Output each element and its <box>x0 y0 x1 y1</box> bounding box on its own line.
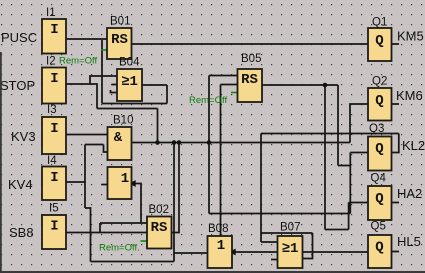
wire B07 wrap top <box>261 232 313 234</box>
wire into B07.in1 <box>261 241 278 243</box>
wire Q3 wrap top <box>261 133 399 135</box>
wire drop to B07.in1 <box>260 134 262 243</box>
green tick B05 Par <box>231 92 238 94</box>
svg-text:Rem=Off.: Rem=Off. <box>99 243 140 254</box>
junction bus-riser <box>155 140 160 145</box>
RS latch B01 <box>107 28 132 59</box>
wire bottom horizontal <box>91 261 175 263</box>
wire bus up to Q2 <box>350 104 368 143</box>
OR gate B04 <box>117 69 142 101</box>
svg-text:I1: I1 <box>46 7 56 19</box>
wire I4 output <box>66 181 85 183</box>
svg-text:Q: Q <box>375 191 383 207</box>
wire left chain top <box>85 144 104 146</box>
junction bus-B05 column <box>207 140 212 145</box>
wire drop to I5 line <box>99 223 101 233</box>
RS latch B02 <box>147 217 172 249</box>
OR gate B07 <box>278 236 303 268</box>
junction bus-B02 riser <box>177 140 182 145</box>
svg-text:KV4: KV4 <box>8 177 33 192</box>
wire left chain vertical <box>84 145 86 209</box>
wire drop to Q4 path <box>324 85 326 230</box>
svg-text:Q: Q <box>375 141 383 157</box>
svg-text:Q5: Q5 <box>371 221 386 233</box>
NOT gate B08 <box>208 236 233 268</box>
svg-text:1: 1 <box>121 171 129 187</box>
svg-text:B01: B01 <box>110 16 130 28</box>
svg-text:HL5: HL5 <box>397 234 421 249</box>
RS latch B05 <box>238 69 263 102</box>
wire step down to B10.in2 <box>104 145 108 153</box>
wire step up to B04.in1 <box>90 76 117 84</box>
svg-text:Rem=Off: Rem=Off <box>189 95 227 106</box>
wire B07 output to Q5 <box>303 251 369 253</box>
junction bus-B08 drop <box>172 140 177 145</box>
stub NOT1 left input <box>102 184 108 186</box>
svg-text:I: I <box>50 170 58 186</box>
wire vertical B05.S feed <box>208 76 210 214</box>
svg-text:I5: I5 <box>49 203 59 215</box>
wire horizontal to B02.S <box>100 222 147 224</box>
wire loop bottom <box>102 103 167 105</box>
svg-text:KM6: KM6 <box>396 88 423 103</box>
svg-text:PUSC: PUSC <box>1 30 37 45</box>
svg-text:I2: I2 <box>46 56 56 68</box>
svg-text:B08: B08 <box>208 223 228 235</box>
stub B07.in3 <box>271 259 278 261</box>
wire NOT1 right arrow feed <box>132 184 142 224</box>
svg-text:I: I <box>50 22 58 38</box>
wire loop right side <box>166 85 168 104</box>
wire drop at 338 <box>337 85 339 166</box>
wire riser I2 node down <box>96 83 98 108</box>
svg-text:STOP: STOP <box>0 78 35 93</box>
input I1 <box>42 19 66 54</box>
svg-text:&: & <box>114 130 123 146</box>
svg-text:SB8: SB8 <box>9 225 34 240</box>
wire Q3 wrap right <box>392 134 399 153</box>
wire B01 output to Q1 <box>132 43 369 45</box>
svg-text:≥1: ≥1 <box>282 241 299 257</box>
svg-text:RS: RS <box>241 72 258 88</box>
green tick B01 Par <box>101 49 107 51</box>
svg-text:I4: I4 <box>47 155 57 167</box>
green tick B02 Par <box>141 240 148 242</box>
stub Q1 output <box>392 43 400 45</box>
wire riser to bus node <box>157 109 159 143</box>
svg-text:Q2: Q2 <box>372 76 387 88</box>
svg-text:Q: Q <box>375 93 383 109</box>
svg-text:Q1: Q1 <box>372 17 387 29</box>
svg-text:B10: B10 <box>113 115 133 127</box>
wire B05 output <box>262 84 338 86</box>
wire B02 output <box>172 143 180 233</box>
stub B04.in3 <box>111 90 118 93</box>
junction B05 output branch <box>323 83 328 88</box>
wire I1 to B01.S <box>66 38 107 40</box>
svg-text:RS: RS <box>151 220 168 236</box>
svg-text:B05: B05 <box>241 53 261 65</box>
wire B07 wrap right <box>303 233 313 259</box>
input I4 <box>42 167 66 201</box>
svg-text:Rem=Off: Rem=Off <box>59 56 97 67</box>
svg-text:I: I <box>50 219 58 235</box>
svg-text:Q4: Q4 <box>371 173 387 185</box>
wire bus drop to bottom <box>173 143 175 262</box>
svg-text:Q3: Q3 <box>369 123 384 135</box>
stub Q2 output <box>392 103 400 105</box>
wire to B08 input <box>174 252 208 254</box>
wire I3 to B10.in1 <box>66 134 108 136</box>
input I5 <box>42 215 66 249</box>
wire into Q4 <box>349 202 368 204</box>
svg-text:I3: I3 <box>47 104 57 116</box>
svg-text:I: I <box>50 71 58 87</box>
stub Q5 output <box>392 251 400 253</box>
wire into Q3 <box>350 152 368 154</box>
wire long horizontal 213 <box>209 213 350 215</box>
svg-text:I: I <box>50 121 58 137</box>
wire jog at 208 <box>85 208 91 262</box>
wire vertical B05.R feed <box>220 85 222 237</box>
wire B04 output <box>142 84 167 86</box>
svg-text:B04: B04 <box>119 57 140 69</box>
wire link to Q3 riser <box>338 165 350 167</box>
svg-text:KV3: KV3 <box>11 129 36 144</box>
wire I5 to B02.R <box>66 232 147 234</box>
output Q5 <box>368 235 392 268</box>
wire Q4 path bottom <box>325 229 349 231</box>
svg-text:HA2: HA2 <box>397 186 422 201</box>
svg-text:RS: RS <box>111 32 128 48</box>
wire into B05.S <box>209 75 238 77</box>
wire B01.R loop riser <box>101 40 103 104</box>
wire Q4 riser <box>348 203 350 230</box>
wire I2 output <box>66 83 97 85</box>
AND gate B10 <box>108 127 132 160</box>
svg-text:1: 1 <box>217 238 225 254</box>
input I2 <box>42 68 66 104</box>
output Q4 <box>368 186 392 220</box>
svg-text:≥1: ≥1 <box>121 74 138 90</box>
svg-text:KL2: KL2 <box>402 138 425 153</box>
stub Q4 output <box>392 202 400 204</box>
output Q2 <box>368 88 392 121</box>
NOT gate unlabeled <box>108 167 132 199</box>
svg-text:Q: Q <box>375 33 383 49</box>
output Q3 <box>368 137 392 171</box>
svg-text:B02: B02 <box>149 204 169 216</box>
arrow into B08 <box>229 249 236 256</box>
stub B04.in2 <box>112 84 118 86</box>
input I3 <box>42 117 66 154</box>
window edge left <box>0 52 2 273</box>
wire main bus <box>132 142 351 144</box>
window edge bottom <box>0 271 425 273</box>
svg-text:KM5: KM5 <box>397 29 424 44</box>
arrow into NOT1 <box>129 180 136 187</box>
svg-text:Q: Q <box>375 240 383 256</box>
wire into B05.R <box>221 84 238 86</box>
wire Q3 riser <box>349 153 351 214</box>
svg-text:B07: B07 <box>280 222 300 234</box>
output Q1 <box>368 28 392 61</box>
wire horizontal feedback row <box>97 108 158 110</box>
wire B08 to B07.in2 <box>232 251 278 253</box>
